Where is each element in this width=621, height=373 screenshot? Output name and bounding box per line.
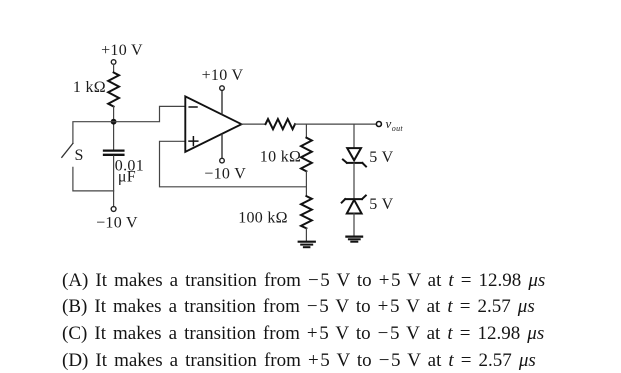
resistor R1 1 kΩ (108, 73, 119, 107)
svg-text:+10 V: +10 V (101, 42, 143, 59)
wire (100k to ground) (305, 228, 307, 240)
wire (zener to ground) (353, 214, 355, 236)
terminal -10 V op-amp (220, 158, 225, 163)
capacitor C1 0.01 µF plate top (104, 149, 123, 151)
ground (below 100k) (299, 242, 315, 248)
svg-text:+10 V: +10 V (202, 67, 244, 84)
svg-text:10 kΩ: 10 kΩ (260, 149, 301, 166)
wire (switch bottom to cap bottom net) (73, 167, 114, 191)
svg-text:100 kΩ: 100 kΩ (238, 209, 288, 226)
wire (node to inverting input) (114, 106, 186, 121)
wire (to vout terminal) (295, 123, 376, 125)
op-amp minus pin label (189, 106, 197, 108)
resistor R2 (series output) (266, 119, 296, 129)
op-amp plus pin label (189, 137, 198, 146)
terminal +10 V left (111, 60, 116, 65)
wire (113, 65, 115, 73)
wire (cap bottom to -10V terminal) (113, 156, 115, 207)
svg-text:−10 V: −10 V (204, 166, 246, 183)
zener diode D2 5 V (342, 196, 366, 214)
node A (junction dot) (111, 119, 117, 125)
wire (node to switch) (73, 122, 114, 144)
terminal -10 V left (111, 207, 116, 212)
terminal +10 V op-amp (220, 86, 225, 91)
svg-text:5 V: 5 V (369, 149, 393, 166)
resistor R3 10 kΩ (301, 138, 312, 172)
wire (noninverting input feedback) (160, 141, 307, 187)
wire (output node down to zener D1) (353, 124, 355, 148)
wire (10k to junction) (305, 171, 307, 196)
resistor R4 100 kΩ (301, 196, 312, 228)
wire (V- stub) (221, 134, 223, 158)
wire (op-amp output) (242, 123, 266, 125)
capacitor C1 plate bottom (104, 154, 123, 156)
terminal vout (376, 122, 381, 127)
svg-text:−10 V: −10 V (96, 215, 138, 232)
svg-text:S: S (75, 147, 84, 164)
svg-text:out: out (392, 124, 404, 133)
wire (V+ stub) (221, 90, 223, 114)
zener diode D1 5 V (343, 148, 366, 166)
wire (output node down to 10k) (305, 124, 307, 138)
wire (113, 107, 115, 150)
svg-text:1 kΩ: 1 kΩ (73, 79, 106, 96)
svg-text:μF: μF (118, 168, 136, 185)
wire (between zeners) (353, 163, 355, 199)
ground (below zeners) (346, 237, 362, 242)
svg-text:5 V: 5 V (369, 196, 393, 213)
switch S blade (62, 143, 73, 157)
op-amp U1 (185, 96, 241, 151)
svg-text:v: v (386, 116, 392, 131)
